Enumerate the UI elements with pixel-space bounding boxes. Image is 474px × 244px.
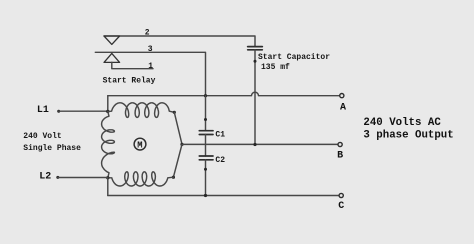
relay armature contact triangle (pin 3)	[104, 53, 120, 62]
wire: vertical from wire A down to motor top-left corner	[107, 96, 109, 112]
capacitor chain: wire A down to C1	[205, 96, 207, 130]
junction dot motor right vertex	[180, 143, 183, 146]
wire: L2 lead to motor	[58, 177, 108, 179]
capacitor C1 plates	[199, 131, 213, 135]
terminal A circle	[340, 94, 344, 98]
svg-text:C1: C1	[215, 131, 225, 140]
capacitor: start capacitor plates	[248, 47, 263, 50]
wire: C1 to C2 crossing wire B	[205, 135, 207, 157]
junction dot below C2	[204, 168, 207, 171]
junction dot wire A / capacitor chain	[204, 94, 207, 97]
svg-text:2: 2	[145, 29, 150, 38]
junction dot motor top-left corner	[106, 110, 109, 113]
junction dot below start capacitor	[254, 60, 257, 63]
svg-text:Start Relay: Start Relay	[103, 76, 156, 85]
svg-text:1: 1	[148, 62, 153, 71]
wire: L1 lead to motor	[59, 110, 108, 112]
wire: motor bottom-left corner down to wire C	[107, 178, 109, 196]
wire B: motor vertex to terminal B	[182, 143, 338, 145]
wire: relay common arm (pin 3) down to wire A	[95, 52, 205, 95]
motor outline: right lower slant	[173, 144, 182, 177]
junction dot motor top-right corner	[173, 111, 176, 114]
terminal dot L1	[57, 110, 60, 113]
junction dot motor bottom-left corner	[106, 176, 109, 179]
junction dot above C1	[204, 118, 207, 121]
svg-text:3 phase Output: 3 phase Output	[363, 130, 453, 142]
terminal B circle	[338, 142, 342, 146]
junction dot wire B / start capacitor lead	[253, 143, 256, 146]
wire: relay contact 2 to start capacitor top lead	[104, 36, 255, 46]
svg-text:Start Capacitor: Start Capacitor	[258, 53, 330, 62]
svg-text:240 Volt: 240 Volt	[23, 132, 62, 141]
terminal dot L2	[56, 176, 59, 179]
wire: start capacitor lower lead down to wire B	[254, 50, 256, 145]
svg-text:C: C	[338, 201, 344, 212]
capacitor C2 plates	[199, 156, 213, 160]
svg-text:M: M	[137, 140, 142, 150]
svg-text:3: 3	[148, 45, 153, 54]
terminal C circle	[339, 193, 343, 197]
wire: relay pin 1 stub	[112, 62, 153, 68]
svg-text:240 Volts AC: 240 Volts AC	[363, 117, 441, 129]
motor M circle	[134, 138, 146, 150]
wire: C2 down to wire C	[205, 160, 207, 196]
wire C: horizontal to terminal C	[108, 195, 339, 197]
svg-text:A: A	[340, 102, 346, 113]
junction dot wire C / capacitor chain	[204, 194, 207, 197]
svg-text:135 mf: 135 mf	[261, 63, 290, 72]
svg-text:L1: L1	[37, 105, 49, 116]
motor winding: left coil	[102, 112, 115, 178]
motor winding: top coil	[108, 103, 175, 118]
svg-text:L2: L2	[39, 172, 51, 183]
svg-text:Single Phase: Single Phase	[23, 144, 81, 153]
junction dot motor bottom-right corner	[172, 176, 175, 179]
motor outline: right upper slant	[174, 112, 182, 144]
relay NC contact triangle (pin 2)	[104, 36, 120, 44]
svg-text:C2: C2	[215, 156, 225, 165]
wire A: horizontal output wire with hop over start-capacitor lead	[108, 92, 340, 96]
svg-text:B: B	[337, 151, 343, 162]
motor winding: bottom coil	[108, 172, 174, 186]
